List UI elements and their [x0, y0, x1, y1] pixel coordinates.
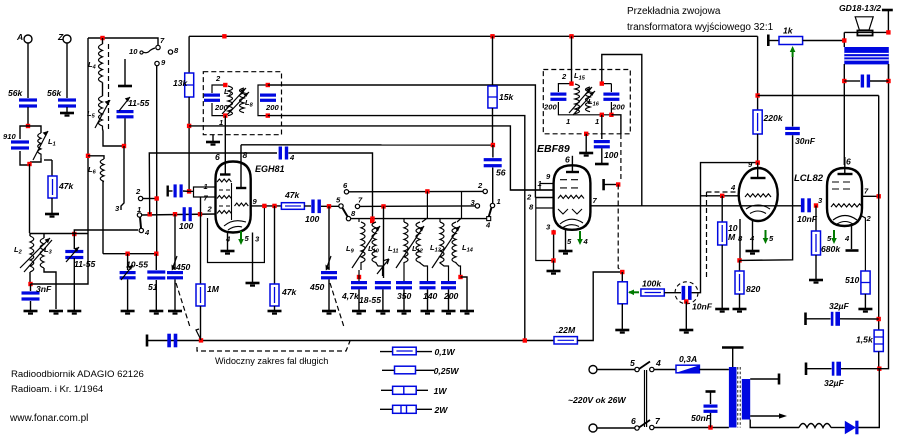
svg-text:3nF: 3nF [36, 284, 52, 294]
IF1 coils L7 L8 [215, 74, 254, 127]
svg-text:51: 51 [148, 282, 158, 292]
svg-text:2: 2 [207, 205, 213, 214]
1k wiper green arrow [790, 46, 796, 57]
wire contact7 row [360, 205, 476, 208]
EBF89 cathode arc [560, 219, 583, 227]
triode plate [751, 163, 766, 178]
dashed circle (pot-mounted switch) [675, 282, 698, 304]
wire y284 to rail [31, 38, 89, 284]
IF2 capacitor 200 left [543, 93, 566, 112]
transformer primary cap [842, 64, 891, 165]
IF transformer I dashed box [203, 72, 281, 135]
svg-text:680k: 680k [821, 244, 841, 254]
svg-text:1k: 1k [783, 26, 794, 36]
resistor 680k [812, 206, 842, 280]
band switch contact 3 [471, 198, 480, 208]
svg-text:200: 200 [443, 291, 459, 301]
trimmer 10-55 [120, 254, 149, 310]
capacitor 4 (ant coupling) [279, 147, 295, 163]
capacitor 51 [147, 254, 165, 310]
node 51 junction [154, 252, 158, 256]
ground (L3) [49, 311, 63, 314]
node grid cap junction [187, 189, 191, 193]
svg-text:56: 56 [496, 168, 506, 178]
IF2 capacitor 200 right [603, 93, 625, 112]
resistor 100k [641, 279, 664, 297]
svg-text:0,1W: 0,1W [435, 347, 456, 357]
osc switch contact 7 [355, 196, 363, 209]
svg-text:Widoczny zakres fal długich: Widoczny zakres fal długich [215, 356, 328, 366]
node [155, 196, 159, 200]
coil L9/L10 osc [346, 219, 383, 276]
svg-text:56k: 56k [47, 88, 63, 98]
wire 30nF to cathode [740, 135, 793, 260]
band switch contact 1 [490, 197, 500, 208]
dashed gang line 2 [330, 283, 344, 327]
EGH81 grids [217, 179, 231, 182]
IF1 frame wires [212, 85, 268, 116]
svg-text:100k: 100k [642, 279, 662, 289]
svg-text:4: 4 [225, 235, 231, 244]
svg-text:4: 4 [289, 153, 295, 162]
svg-text:32µF: 32µF [829, 301, 850, 311]
volume pot 100k [615, 270, 629, 333]
svg-text:100: 100 [179, 221, 194, 231]
pentode pin7 screen wire [862, 195, 879, 197]
tube EBF89 envelope [554, 165, 591, 230]
svg-text:8: 8 [243, 150, 248, 160]
band switch contact 2 [477, 181, 487, 194]
EGH81 output wire pin 9 [251, 205, 281, 207]
node junction [27, 162, 31, 166]
wire [66, 107, 68, 112]
svg-text:1: 1 [137, 205, 141, 214]
trimmer 450 (osc 2) [309, 206, 337, 310]
svg-text:.22M: .22M [556, 325, 576, 335]
rectifier diode [845, 421, 859, 435]
capacitor 100 (osc coupling) [305, 200, 321, 225]
resistor 820 [735, 260, 761, 308]
capacitor 10nF (output grid) [797, 198, 818, 224]
svg-text:0,25W: 0,25W [434, 366, 460, 376]
ground [268, 311, 282, 314]
svg-text:100: 100 [305, 214, 320, 224]
filter choke [799, 424, 831, 428]
IF2 feed riser [571, 36, 573, 83]
AVC bottom wire [147, 340, 554, 342]
capacitor 56k (antenna Z) [47, 88, 76, 108]
svg-text:1: 1 [497, 197, 501, 206]
capacitor 3nF [22, 284, 53, 310]
svg-text:32µF: 32µF [824, 378, 845, 388]
grid capacitor (EGH81 g1) [168, 184, 189, 197]
terminal Z [57, 32, 71, 43]
switch 10 arm [129, 47, 155, 56]
transformer shield bar [722, 348, 744, 368]
svg-text:www.fonar.com.pl: www.fonar.com.pl [9, 413, 88, 424]
resistor 510 [845, 271, 870, 308]
capacitor 200 (osc) [441, 281, 459, 310]
svg-text:4: 4 [655, 358, 661, 368]
switch contact 9 [155, 58, 166, 67]
resistor 1M [196, 197, 220, 340]
wire wiper to 30nF [792, 57, 794, 127]
ground [121, 311, 135, 314]
terminal A [16, 32, 32, 43]
power switch contact 5 [630, 358, 639, 372]
resistor 10M [718, 196, 738, 308]
EBF89 pin3 [546, 223, 561, 274]
svg-text:Radioam. i Kr. 1/1964: Radioam. i Kr. 1/1964 [11, 384, 104, 395]
fuse 0,3A [654, 354, 729, 373]
resistor 15k [488, 36, 515, 145]
ground [322, 311, 336, 314]
svg-text:510: 510 [845, 275, 860, 285]
svg-text:200: 200 [543, 103, 557, 112]
svg-text:6: 6 [846, 157, 851, 167]
osc switch contact 5 [336, 196, 343, 209]
node A junction [26, 124, 30, 128]
output transformer jog [879, 64, 888, 369]
EBF89 grid zigzag [558, 195, 584, 198]
EGH81 cathode arc [224, 221, 246, 230]
svg-text:450: 450 [309, 282, 325, 292]
coil L2 / L3 transformer (variable) [14, 233, 56, 309]
band switch contact 4 + arm [485, 208, 492, 230]
power switch contact 7 + arm [639, 416, 661, 430]
wire [27, 107, 29, 126]
osc switch contact 8 [346, 209, 356, 221]
switch arm 1-4 [140, 217, 141, 228]
node 11-55/L5 junction [122, 144, 126, 148]
node padder row left [125, 252, 129, 256]
svg-text:2: 2 [477, 181, 483, 190]
legend 0,25W resistor [382, 366, 459, 376]
svg-text:0,3A: 0,3A [679, 354, 697, 364]
tube LCL82 triode envelope [739, 168, 778, 221]
EGH81 pin 8 plate bar [236, 145, 248, 188]
svg-text:4: 4 [583, 237, 589, 246]
wire osc grid row [142, 214, 216, 215]
mains terminal bottom [589, 424, 597, 432]
svg-text:4: 4 [749, 234, 755, 243]
resistor 13k [173, 36, 194, 191]
wire contact2 [143, 198, 157, 200]
switch contact 2 (band) [135, 187, 143, 201]
svg-text:4,7k: 4,7k [341, 291, 360, 301]
coil L13/L14 osc [430, 191, 474, 281]
svg-text:47k: 47k [284, 190, 301, 200]
ground [149, 311, 163, 314]
node 3nF junction [28, 282, 32, 286]
svg-text:220k: 220k [763, 113, 784, 123]
svg-text:2: 2 [215, 74, 221, 83]
svg-text:47k: 47k [58, 181, 75, 191]
dashed LW bracket [197, 341, 350, 351]
legend 0,1W resistor [380, 347, 455, 357]
AVC dashed line to volume pot [618, 185, 622, 272]
svg-text:GD18-13/2: GD18-13/2 [839, 3, 881, 13]
EBF89 plate wire to audio [590, 205, 801, 207]
svg-text:Przekładnia zwojowa: Przekładnia zwojowa [627, 6, 721, 17]
svg-text:1,5k: 1,5k [856, 335, 874, 345]
switch contact 1 (band) [137, 205, 142, 217]
wire contact9 column [156, 66, 158, 254]
IF1 junction dots [223, 83, 227, 87]
svg-text:~220V ok 26W: ~220V ok 26W [568, 395, 626, 405]
svg-text:Radioodbiornik ADAGIO 62126: Radioodbiornik ADAGIO 62126 [11, 369, 144, 380]
svg-text:10nF: 10nF [797, 214, 818, 224]
svg-text:4: 4 [844, 234, 850, 243]
legend 1W resistor [381, 386, 447, 396]
svg-text:200: 200 [214, 103, 228, 112]
svg-text:11-55: 11-55 [128, 98, 150, 108]
osc switch arm [343, 208, 348, 217]
coil L11/L12 osc [388, 191, 428, 281]
svg-text:1W: 1W [434, 386, 448, 396]
wire Z-down [66, 43, 68, 98]
AVC capacitor [167, 334, 177, 348]
AVC tap terminal [604, 179, 621, 190]
rectifier feed [857, 369, 879, 428]
svg-text:140: 140 [423, 291, 438, 301]
ground [45, 214, 59, 217]
IF transformer II dashed box [543, 70, 630, 134]
EBF89 pin4 heater arrow [577, 231, 588, 246]
EBF89 grid wire [535, 197, 553, 199]
triode grid wire [701, 195, 740, 197]
node [173, 212, 177, 216]
svg-text:100: 100 [604, 150, 619, 160]
bottom mains wire [654, 427, 729, 429]
dashed gang line [176, 283, 190, 327]
HT winding bottom wire [750, 420, 799, 428]
IF2 coils L15 L16 [561, 71, 600, 126]
capacitor 56 [484, 145, 506, 203]
pot 1k (feedback) [768, 26, 844, 47]
B+ column [878, 96, 880, 331]
IF1 capacitor 200 left [204, 94, 228, 113]
node [198, 212, 202, 216]
power switch contact 6 [631, 416, 639, 430]
pentode grid zigzag [831, 204, 862, 207]
svg-text:M: M [728, 232, 736, 242]
wire pins 1,7 EGH81 [189, 187, 215, 197]
capacitor 100 (det) [594, 115, 619, 164]
coil L6 [88, 159, 104, 254]
ground [168, 311, 182, 314]
wire osc padder row [103, 253, 156, 255]
EGH81 pin 3 [246, 233, 261, 286]
capacitor 10nF (AF coupling) [682, 286, 713, 312]
wire down to contact 3 hook [121, 146, 124, 210]
capacitor 910 [3, 126, 29, 165]
power transformer [729, 367, 750, 428]
antenna coupling riser [149, 153, 277, 214]
EGH81 mixer grid zigzag pin 9 [235, 203, 249, 206]
triode pin 8 cathode [738, 219, 743, 260]
svg-text:4: 4 [144, 228, 150, 237]
ground [67, 311, 81, 314]
AVC terminal bar [146, 335, 149, 347]
svg-text:450: 450 [175, 262, 191, 272]
pentode plate [838, 157, 853, 175]
pilot lamp arrow wire [750, 413, 787, 418]
svg-text:2W: 2W [434, 405, 449, 415]
EBF89 pin1/9 stub [510, 184, 553, 191]
svg-text:4: 4 [485, 221, 491, 230]
resistor 220k [753, 36, 784, 162]
svg-text:4: 4 [730, 183, 736, 192]
capacitor 50nF [691, 392, 718, 428]
wire L2 top [30, 233, 88, 235]
wire top-left rail A [88, 38, 158, 46]
heater tap terminal [750, 374, 779, 385]
wire det to AVC junction [611, 115, 621, 134]
svg-text:1: 1 [204, 182, 208, 191]
svg-text:350: 350 [397, 291, 412, 301]
capacitor 4,7k (osc) [341, 281, 367, 310]
output transformer [844, 47, 889, 64]
svg-text:910: 910 [3, 132, 16, 141]
svg-text:1: 1 [566, 117, 570, 126]
EGH81 pin 6 plate bar [215, 152, 231, 175]
node L4 top [100, 36, 104, 40]
wire A-down [27, 43, 29, 98]
svg-text:EBF89: EBF89 [537, 143, 570, 155]
EBF89 pin 6 plate [565, 155, 579, 173]
wire [321, 205, 339, 207]
EBF89 diode plates [558, 209, 582, 214]
svg-text:10: 10 [129, 47, 138, 56]
wire IF1 to EGH81 g [224, 116, 226, 174]
wire contact6 row [349, 190, 485, 192]
switch contact 4 (band) [139, 228, 150, 237]
capacitor 100 (osc grid) [179, 207, 194, 231]
svg-text:LCL82: LCL82 [794, 173, 824, 184]
svg-text:2: 2 [866, 214, 872, 223]
triode cathode arc [746, 205, 770, 214]
triode grid zigzag [745, 194, 771, 197]
svg-text:6: 6 [631, 416, 636, 426]
ground [60, 113, 74, 116]
svg-text:5: 5 [630, 358, 635, 368]
capacitor 32uF (1) [806, 301, 879, 326]
oscillator box [208, 208, 265, 263]
EGH81 pin 4 ground [221, 233, 235, 254]
svg-text:11-55: 11-55 [74, 259, 96, 269]
svg-text:2: 2 [561, 72, 567, 81]
dashed core line L4/L5 [108, 44, 110, 130]
svg-text:820: 820 [746, 284, 761, 294]
tube LCL82 pentode envelope [827, 168, 862, 226]
node AVC/13k [187, 124, 191, 128]
svg-text:30nF: 30nF [795, 136, 816, 146]
osc switch contact 6 [343, 181, 349, 194]
coil L5 (variable) [87, 96, 124, 146]
EGH81 pin 5 heater arrow [238, 231, 249, 245]
IF1 capacitor 200 right [260, 94, 279, 113]
svg-text:200: 200 [265, 103, 279, 112]
wire cap4 to switch [288, 153, 372, 219]
B+ screen rail [758, 95, 879, 97]
capacitor 32uF (2) [806, 362, 879, 388]
EBF89 pin5 ground [559, 230, 573, 254]
pentode pin4 ground [844, 225, 859, 251]
svg-text:18-55: 18-55 [359, 295, 381, 305]
resistor 47k (AGC leak) [44, 160, 75, 213]
trimmer 18-55 [359, 206, 391, 310]
pentode screens dashed [832, 182, 850, 189]
IF2 shield ground [579, 132, 593, 156]
coil L1 (variable) [28, 126, 56, 162]
svg-text:2: 2 [526, 193, 532, 202]
pentode pin5 heater arrow [827, 230, 837, 244]
dashed shield triode grid [707, 192, 738, 278]
wire L6 stub [88, 156, 104, 159]
wire [664, 292, 681, 294]
tube EGH81 envelope [216, 162, 251, 233]
wire EGH81 screen rail [241, 144, 493, 146]
svg-text:13k: 13k [173, 78, 189, 88]
trimmer 450 (osc) [167, 214, 191, 310]
triode pin 5 heater arrow [763, 230, 774, 244]
coil L4 [88, 38, 103, 96]
wire AVC row [189, 126, 553, 190]
resistor .22M [554, 325, 577, 344]
svg-text:15k: 15k [499, 92, 515, 102]
svg-text:1: 1 [595, 117, 599, 126]
speaker GD18-13/2 [839, 3, 893, 47]
mains terminal top [589, 366, 597, 374]
resistor 47k horizontal [281, 190, 304, 209]
svg-text:EGH81: EGH81 [255, 164, 285, 174]
node L6 tap [86, 154, 90, 158]
svg-text:Z: Z [57, 32, 64, 42]
wire 10nF up to triode grid [692, 163, 758, 293]
wire .22M to pot [577, 272, 622, 341]
legend 2W resistor [380, 405, 448, 415]
EBF89 plates dashed [560, 180, 578, 188]
svg-text:6: 6 [565, 155, 570, 165]
svg-text:6: 6 [215, 152, 220, 162]
switch contact 8 [168, 46, 179, 55]
svg-text:1M: 1M [207, 284, 220, 294]
pot wiper green arrow [628, 290, 639, 296]
wire [304, 205, 311, 207]
capacitor 56k (antenna A) [8, 88, 37, 108]
trimmer 11-55 (osc L5) [117, 59, 150, 146]
wire IF1 plate row [268, 85, 536, 198]
IF2 plate loop wire [602, 55, 642, 206]
capacitor 350 [396, 281, 412, 310]
switch contact 7 [156, 36, 165, 50]
triode pin 4 ground [746, 221, 760, 254]
pentode cathode arc [833, 216, 857, 225]
capacitor 140 [420, 281, 438, 310]
svg-text:10-55: 10-55 [126, 260, 148, 270]
wire contact8 row [351, 218, 488, 220]
rail top main [189, 35, 758, 37]
ground [24, 311, 38, 314]
capacitor 30nF [785, 127, 816, 146]
resistor 1,5k [856, 330, 883, 369]
svg-text:10nF: 10nF [692, 302, 713, 312]
svg-text:200: 200 [611, 103, 625, 112]
resistor 47k vertical [270, 206, 298, 310]
trimmer 11-55 (L2 circuit) [65, 232, 95, 310]
pentode pin2 wire to 510 [860, 215, 865, 271]
